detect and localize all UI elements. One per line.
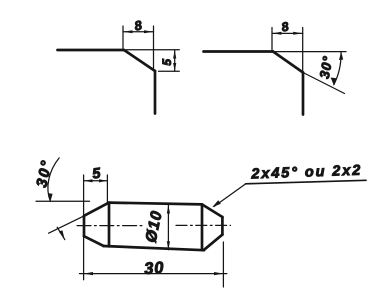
svg-text:5: 5 [160, 59, 174, 66]
svg-text:30: 30 [144, 259, 165, 278]
